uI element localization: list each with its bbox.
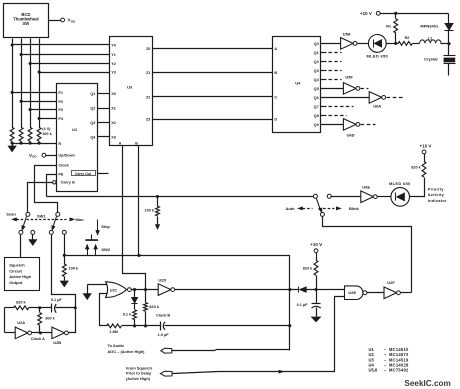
register U3 bbox=[110, 37, 153, 146]
svg-text:Q4: Q4 bbox=[314, 78, 320, 82]
svg-text:Carry In: Carry In bbox=[61, 181, 76, 185]
connector From Squelch bbox=[160, 371, 172, 376]
svg-text:R2: R2 bbox=[405, 36, 410, 40]
wire Q4-X3 bbox=[98, 136, 110, 138]
wire Carry In to SW1 pole 1 bbox=[28, 183, 53, 213]
svg-text:0.1 µF: 0.1 µF bbox=[297, 303, 309, 307]
wire U2E to U2F bbox=[367, 292, 385, 294]
wire U6D out dashed bbox=[361, 124, 376, 126]
wire U4 Q0 to U5A bbox=[321, 43, 341, 45]
svg-text:U4: U4 bbox=[295, 80, 301, 85]
node Clock A bbox=[32, 332, 52, 334]
svg-text:820 k: 820 k bbox=[149, 305, 159, 309]
ground under SW1 contact 2 bbox=[32, 235, 34, 240]
svg-text:300 k: 300 k bbox=[45, 317, 55, 321]
svg-text:Y2: Y2 bbox=[111, 62, 116, 66]
decoder U4 bbox=[273, 37, 321, 133]
wire Z1 to U4 B bbox=[153, 72, 273, 74]
svg-text:U6D: U6D bbox=[347, 133, 355, 138]
svg-text:U3: U3 bbox=[127, 85, 133, 90]
svg-text:A: A bbox=[274, 47, 277, 51]
svg-text:P2: P2 bbox=[58, 100, 63, 104]
NAND gate U2E bbox=[345, 286, 363, 300]
svg-text:C: C bbox=[274, 96, 277, 100]
diode on U2C output bbox=[134, 290, 136, 298]
pin Carry Out boxed label and stub bbox=[72, 171, 96, 176]
svg-text:B: B bbox=[274, 71, 277, 75]
svg-text:MLED 650: MLED 650 bbox=[389, 181, 411, 186]
svg-text:Q9: Q9 bbox=[314, 123, 319, 127]
svg-text:Scan: Scan bbox=[6, 211, 16, 216]
ground under 0.1uF bbox=[312, 317, 321, 322]
svg-text:SW1: SW1 bbox=[37, 213, 46, 218]
wire PE pin to scan-rate line bbox=[47, 175, 57, 197]
svg-text:Z3: Z3 bbox=[146, 118, 150, 122]
svg-text:(Active High): (Active High) bbox=[126, 376, 151, 381]
svg-text:U2D: U2D bbox=[158, 278, 166, 283]
svg-text:Clock B: Clock B bbox=[156, 313, 170, 317]
wire scan-rate line PE to auto switch bbox=[47, 196, 314, 198]
switch SW1 blade 2 bbox=[53, 217, 57, 229]
counter U1 bbox=[57, 84, 98, 192]
switch SW1 dashed travel line bbox=[27, 219, 67, 221]
wire Y0 line bbox=[13, 44, 110, 46]
wire U4 Q7 stub dashed bbox=[321, 106, 327, 108]
svg-text:Priority: Priority bbox=[428, 187, 445, 192]
wire LED to R1 node bbox=[387, 43, 399, 45]
svg-text:U5A: U5A bbox=[343, 31, 351, 36]
svg-text:Q2: Q2 bbox=[90, 107, 95, 111]
svg-text:MLED 650: MLED 650 bbox=[367, 54, 389, 59]
svg-text:Q1: Q1 bbox=[314, 51, 319, 55]
wire SW1 contact4 to SW2 line and 100k bbox=[64, 235, 66, 255]
svg-text:MC75492: MC75492 bbox=[389, 367, 409, 372]
wire switch to U6E bbox=[332, 196, 361, 198]
wire U2B out up to 0.1uF bbox=[69, 308, 76, 333]
wire U4 Q8 stub dashed bbox=[321, 115, 327, 117]
svg-text:1.0 µF: 1.0 µF bbox=[158, 333, 170, 337]
svg-text:+10 V: +10 V bbox=[310, 242, 322, 247]
svg-text:Y1: Y1 bbox=[111, 53, 116, 57]
label Blink with arrow bbox=[319, 208, 335, 210]
wire U2C lower input to 1.8M bbox=[100, 294, 108, 326]
wire U3 pin A down to oscillator B node bbox=[123, 146, 146, 289]
svg-text:Q2: Q2 bbox=[314, 60, 319, 64]
switch auto/blink pole bbox=[313, 194, 317, 198]
svg-text:U5F: U5F bbox=[345, 74, 353, 79]
svg-text:U2E: U2E bbox=[348, 290, 356, 295]
svg-text:P1: P1 bbox=[58, 91, 63, 95]
wire U4 Q4 stub dashed bbox=[321, 79, 327, 81]
svg-text:+10 V: +10 V bbox=[420, 143, 432, 148]
svg-text:Output: Output bbox=[9, 280, 23, 285]
svg-text:X1: X1 bbox=[111, 107, 116, 111]
svg-text:SW2: SW2 bbox=[101, 247, 110, 252]
wire U2F output to blink switch bbox=[401, 292, 412, 294]
svg-text:Z1: Z1 bbox=[146, 71, 150, 75]
node P branch junctions bbox=[11, 91, 14, 94]
svg-text:X2: X2 bbox=[111, 121, 116, 125]
svg-text:MPN3401: MPN3401 bbox=[420, 23, 439, 28]
wire resistor ground rail to R pin bbox=[13, 143, 57, 145]
svg-text:Y3: Y3 bbox=[111, 71, 116, 75]
svg-text:Squelch: Squelch bbox=[9, 262, 25, 267]
wire U4 Q1 stub dashed bbox=[321, 52, 327, 54]
svg-text:Q4: Q4 bbox=[90, 136, 96, 140]
svg-text:Q6: Q6 bbox=[314, 96, 319, 100]
switch SW1 poles bbox=[26, 212, 30, 216]
ground below resistor rail bbox=[12, 144, 14, 147]
ground on U2C upper input bbox=[88, 284, 108, 286]
wire U4 Q9 to U6D bbox=[321, 124, 344, 126]
svg-text:1.8M: 1.8M bbox=[109, 330, 117, 334]
wire SW1 contact1 to squelch box bbox=[20, 235, 22, 258]
switch blade auto/blink bbox=[317, 199, 321, 211]
svg-text:Q8: Q8 bbox=[314, 114, 319, 118]
wire Q2-X1 bbox=[98, 108, 110, 110]
svg-text:Indicator: Indicator bbox=[428, 198, 447, 203]
svg-text:Circuit: Circuit bbox=[9, 268, 22, 273]
svg-text:D: D bbox=[274, 118, 277, 122]
NOR gate U2C bbox=[106, 282, 127, 298]
wire Y1 line bbox=[22, 54, 110, 56]
wire U5F out dashed bbox=[361, 88, 369, 90]
wire U6A out dashed bbox=[387, 97, 404, 99]
connector To Audio bbox=[161, 348, 172, 353]
svg-text:0.1 µF: 0.1 µF bbox=[51, 298, 63, 302]
wire 820k to LED bbox=[410, 178, 425, 197]
svg-text:U2C: U2C bbox=[110, 288, 118, 292]
svg-text:X0: X0 bbox=[111, 92, 116, 96]
wire P4 line bbox=[40, 118, 57, 120]
svg-text:PE: PE bbox=[58, 172, 64, 176]
svg-text:B: B bbox=[135, 141, 138, 145]
diode U2D output to U2E bbox=[298, 287, 300, 293]
svg-text:P3: P3 bbox=[58, 108, 63, 112]
wire U3 pin B down to SW2 line bbox=[138, 146, 140, 256]
wire 1.0uF to vertical bbox=[165, 325, 290, 327]
svg-text:U1: U1 bbox=[72, 127, 78, 132]
wire SW2 left contact to 100k node bbox=[65, 255, 96, 257]
wire SW1 contact3 to oscillator A output bbox=[52, 235, 76, 307]
svg-text:To Audio: To Audio bbox=[108, 343, 125, 348]
svg-text:Auto: Auto bbox=[285, 206, 295, 211]
svg-text:Clock A: Clock A bbox=[31, 337, 45, 341]
node Y branch junctions bbox=[11, 43, 14, 46]
svg-text:Q1: Q1 bbox=[90, 92, 95, 96]
svg-text:U2A: U2A bbox=[17, 320, 25, 325]
svg-text:100 k: 100 k bbox=[69, 267, 79, 271]
svg-text:R: R bbox=[58, 142, 61, 146]
LED MLED 650 priority bbox=[391, 188, 410, 207]
svg-text:A: A bbox=[119, 141, 122, 145]
wire Z3 to U4 D bbox=[153, 119, 273, 121]
svg-text:U6A: U6A bbox=[373, 104, 381, 109]
pin Carry In bubble bbox=[53, 181, 56, 184]
wire To Audio to oscillator vertical bbox=[172, 350, 290, 351]
negative rail arrow below 100 k bbox=[155, 225, 159, 230]
svg-text:SW: SW bbox=[23, 21, 30, 26]
wire SW2 right contact along B line to oscillator bbox=[96, 256, 290, 351]
svg-text:Z2: Z2 bbox=[146, 96, 150, 100]
svg-text:Q3: Q3 bbox=[90, 121, 95, 125]
svg-text:Q0: Q0 bbox=[314, 42, 319, 46]
svg-text:X3: X3 bbox=[111, 136, 116, 140]
inverter U6A bbox=[369, 92, 382, 104]
svg-text:Q3: Q3 bbox=[314, 69, 319, 73]
wire Y3 line bbox=[40, 72, 110, 74]
svg-text:Z0: Z0 bbox=[146, 47, 150, 51]
wire U4 Q6 to U6A bbox=[321, 97, 370, 99]
wire U4 Q3 stub dashed bbox=[321, 70, 327, 72]
wire P2 line bbox=[22, 101, 57, 103]
svg-text:Up/Down: Up/Down bbox=[58, 154, 75, 158]
BCD thumbwheel switch SW bbox=[4, 4, 49, 38]
svg-text:Q7: Q7 bbox=[314, 105, 319, 109]
wire U2C output line bbox=[132, 289, 159, 291]
wire U4 Q5 to U5F bbox=[321, 88, 344, 90]
svg-text:Step: Step bbox=[101, 224, 110, 229]
wire From Squelch to U2E input bbox=[173, 297, 345, 374]
wire U2D output line bbox=[175, 289, 299, 291]
svg-text:Active High: Active High bbox=[9, 274, 32, 279]
wire oscillator B rail bbox=[135, 325, 161, 327]
switch SW1 contacts bbox=[19, 230, 23, 234]
VDD terminal top bbox=[49, 20, 61, 22]
svg-text:Crystal: Crystal bbox=[424, 56, 438, 61]
wire blink contact to U2F output bbox=[323, 217, 412, 293]
svg-text:9.1 k: 9.1 k bbox=[123, 313, 132, 317]
svg-text:Carry Out: Carry Out bbox=[75, 172, 92, 176]
svg-text:Man.: Man. bbox=[75, 217, 84, 222]
wire U4 Q2 stub dashed bbox=[321, 61, 327, 63]
wire P3 line bbox=[31, 109, 57, 111]
wire Clock pin to SW1 pole 2 bbox=[35, 166, 58, 213]
squelch circuit box bbox=[5, 258, 40, 291]
inverter U6D bbox=[343, 119, 356, 131]
wire +10V rail bbox=[381, 13, 449, 15]
svg-text:820 k: 820 k bbox=[303, 267, 313, 271]
wire Z0 to U4 A bbox=[153, 48, 273, 50]
svg-text:R1: R1 bbox=[386, 24, 391, 28]
svg-text:+10 V: +10 V bbox=[360, 11, 372, 16]
svg-text:SeekIC.com: SeekIC.com bbox=[404, 379, 450, 388]
wire Z2 to U4 C bbox=[153, 96, 273, 98]
resistors (4 X) 100 k pulldowns bbox=[10, 127, 14, 141]
svg-text:Clock: Clock bbox=[58, 164, 69, 168]
svg-text:U2B: U2B bbox=[53, 340, 61, 345]
svg-text:100 k: 100 k bbox=[144, 209, 154, 213]
svg-text:U2F: U2F bbox=[387, 280, 395, 285]
wire BCD output verticals bbox=[12, 39, 14, 128]
svg-text:Activity: Activity bbox=[428, 192, 445, 197]
wire Q1-X0 bbox=[98, 93, 110, 95]
svg-text:AGC – (Active High): AGC – (Active High) bbox=[108, 349, 146, 354]
inverter U2B bbox=[52, 327, 65, 339]
wire Q3-X2 bbox=[98, 122, 110, 124]
svg-text:820 k: 820 k bbox=[16, 301, 26, 305]
svg-text:Q5: Q5 bbox=[314, 87, 319, 91]
svg-text:820 k: 820 k bbox=[411, 165, 421, 169]
svg-text:Blink: Blink bbox=[349, 206, 360, 211]
LED MLED 650 scan indicator bbox=[368, 35, 386, 53]
wire P1 line bbox=[13, 92, 57, 94]
svg-text:U6E: U6E bbox=[362, 185, 370, 190]
svg-text:(4 X): (4 X) bbox=[42, 127, 51, 131]
wire U5A out to LED bbox=[358, 43, 369, 45]
svg-text:100 k: 100 k bbox=[42, 132, 52, 136]
switch SW1 blade 1 bbox=[23, 217, 27, 229]
svg-text:U5,6: U5,6 bbox=[369, 367, 378, 372]
wire Y2 line bbox=[31, 63, 110, 65]
svg-text:Y0: Y0 bbox=[111, 44, 116, 48]
resistor 100 k scan-rate pulldown bbox=[156, 195, 159, 198]
pushbutton SW2 bbox=[85, 239, 98, 241]
ground under 100 k bbox=[60, 281, 68, 287]
